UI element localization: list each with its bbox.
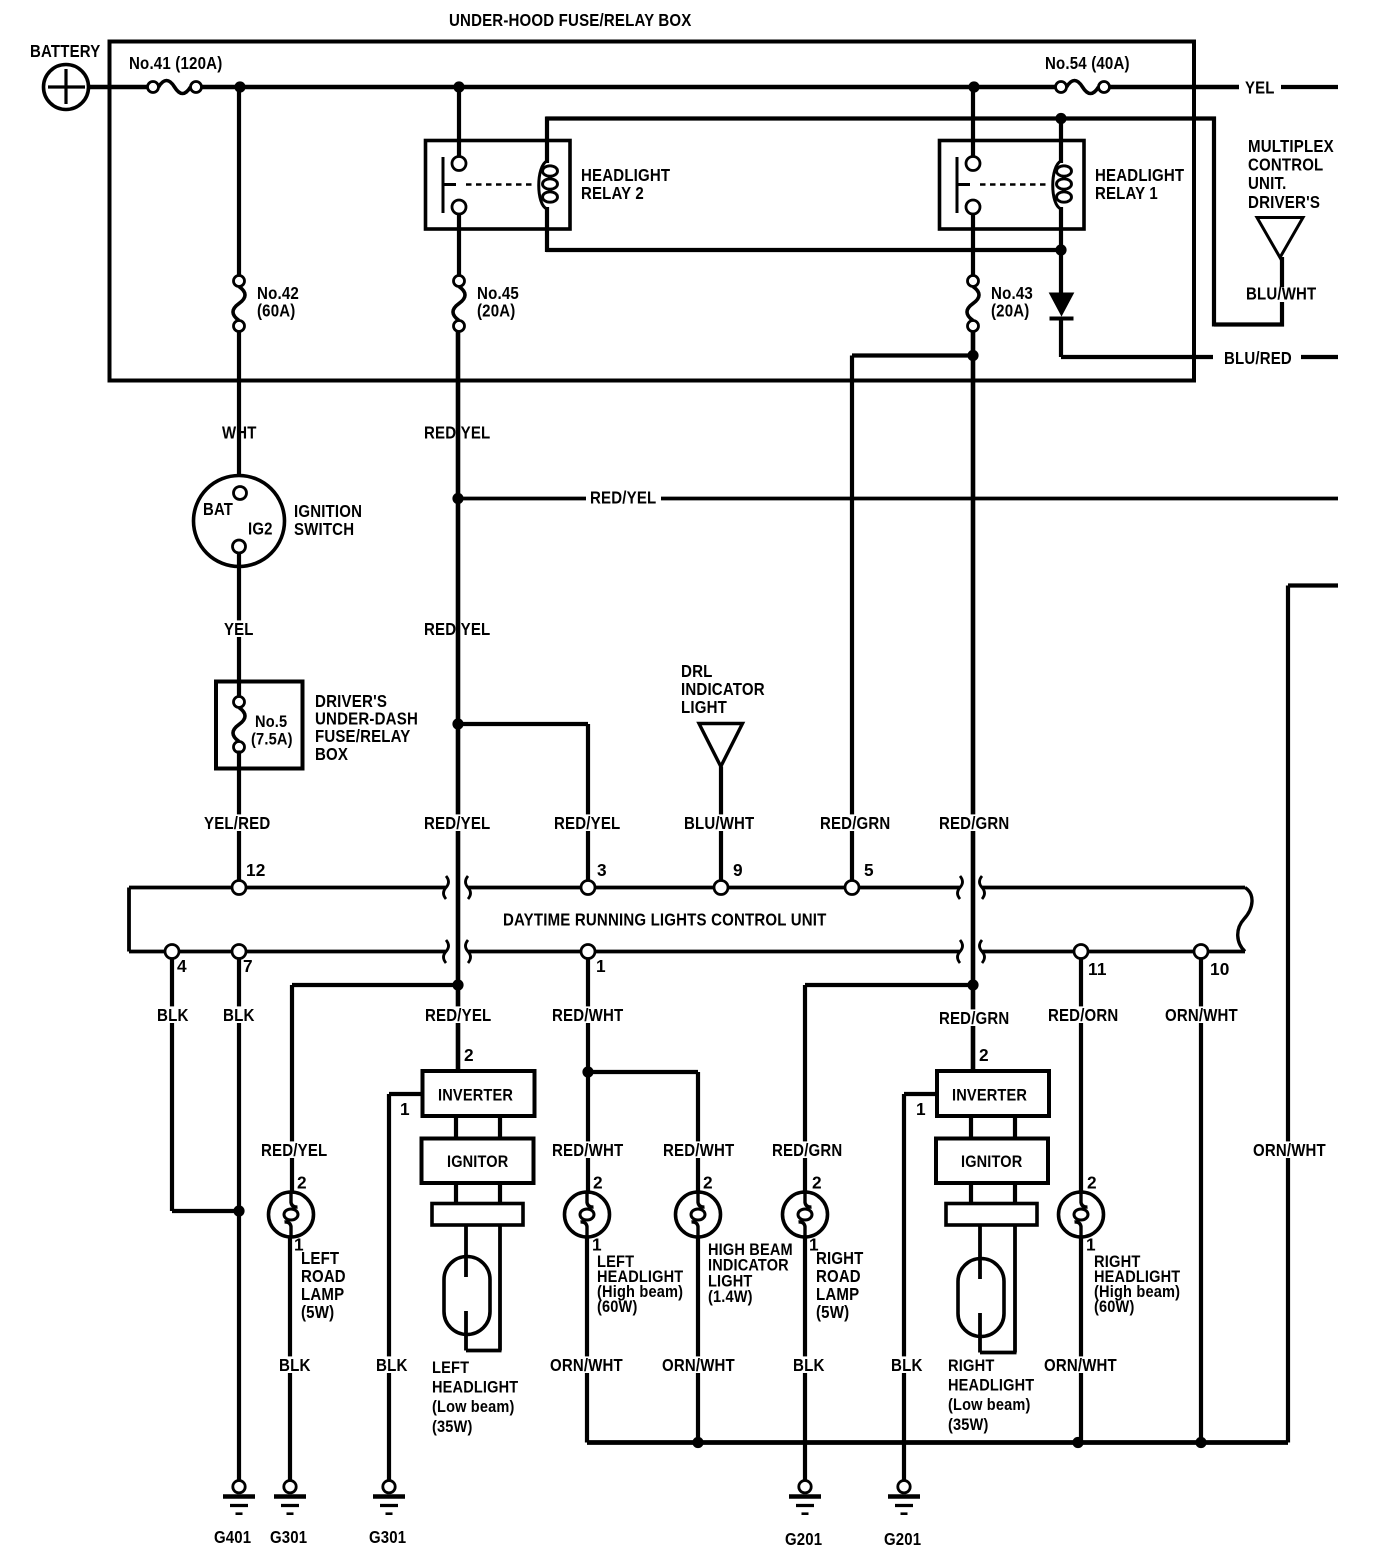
svg-text:(60W): (60W) xyxy=(597,1297,638,1316)
svg-text:DAYTIME RUNNING LIGHTS CONTROL: DAYTIME RUNNING LIGHTS CONTROL UNIT xyxy=(503,910,827,930)
svg-text:(5W): (5W) xyxy=(301,1302,334,1322)
svg-text:YEL/RED: YEL/RED xyxy=(204,813,270,833)
svg-text:ORN/WHT: ORN/WHT xyxy=(1044,1355,1117,1375)
svg-text:BLU/WHT: BLU/WHT xyxy=(1246,284,1317,304)
svg-text:RIGHT: RIGHT xyxy=(948,1356,995,1375)
svg-text:INVERTER: INVERTER xyxy=(438,1086,513,1105)
svg-text:RIGHT: RIGHT xyxy=(816,1248,864,1268)
svg-text:ROAD: ROAD xyxy=(301,1266,346,1286)
svg-text:BLK: BLK xyxy=(157,1005,189,1025)
svg-text:2: 2 xyxy=(979,1045,989,1065)
svg-text:UNDER-HOOD FUSE/RELAY BOX: UNDER-HOOD FUSE/RELAY BOX xyxy=(449,10,692,30)
svg-text:HEADLIGHT: HEADLIGHT xyxy=(432,1378,518,1397)
svg-text:12: 12 xyxy=(246,860,266,880)
svg-text:LAMP: LAMP xyxy=(301,1284,344,1304)
svg-text:1: 1 xyxy=(916,1099,926,1119)
svg-text:UNIT.: UNIT. xyxy=(1248,173,1287,193)
svg-text:5: 5 xyxy=(864,860,874,880)
svg-text:DRIVER'S: DRIVER'S xyxy=(1248,192,1320,212)
svg-text:RED/YEL: RED/YEL xyxy=(590,488,656,508)
svg-text:ORN/WHT: ORN/WHT xyxy=(1165,1005,1238,1025)
svg-text:No.5: No.5 xyxy=(255,712,287,731)
svg-text:7: 7 xyxy=(243,956,253,976)
svg-text:(5W): (5W) xyxy=(816,1302,849,1322)
svg-text:BLU/RED: BLU/RED xyxy=(1224,348,1292,368)
svg-text:RED/GRN: RED/GRN xyxy=(939,1008,1009,1028)
svg-text:1: 1 xyxy=(400,1099,410,1119)
svg-text:IGNITION: IGNITION xyxy=(294,501,362,521)
svg-text:BATTERY: BATTERY xyxy=(30,41,101,61)
svg-text:ORN/WHT: ORN/WHT xyxy=(550,1355,623,1375)
svg-text:LEFT: LEFT xyxy=(301,1248,340,1268)
svg-text:2: 2 xyxy=(1087,1173,1097,1193)
svg-text:BLK: BLK xyxy=(376,1355,408,1375)
svg-text:LIGHT: LIGHT xyxy=(681,697,727,717)
svg-text:HEADLIGHT: HEADLIGHT xyxy=(948,1376,1034,1395)
svg-text:(60A): (60A) xyxy=(257,301,296,321)
svg-text:IGNITOR: IGNITOR xyxy=(447,1152,508,1171)
svg-text:YEL: YEL xyxy=(224,619,254,639)
svg-text:RED/YEL: RED/YEL xyxy=(554,813,620,833)
svg-text:RED/GRN: RED/GRN xyxy=(772,1140,842,1160)
svg-text:BLK: BLK xyxy=(891,1355,923,1375)
svg-text:(20A): (20A) xyxy=(991,301,1030,321)
svg-text:(Low beam): (Low beam) xyxy=(948,1395,1031,1414)
svg-text:SWITCH: SWITCH xyxy=(294,519,354,539)
svg-text:(35W): (35W) xyxy=(948,1415,989,1434)
svg-text:ORN/WHT: ORN/WHT xyxy=(662,1355,735,1375)
svg-text:4: 4 xyxy=(177,956,187,976)
svg-text:G201: G201 xyxy=(884,1529,921,1549)
svg-text:BLK: BLK xyxy=(279,1355,311,1375)
svg-text:IG2: IG2 xyxy=(248,519,273,539)
svg-text:2: 2 xyxy=(297,1173,307,1193)
svg-text:RED/WHT: RED/WHT xyxy=(552,1140,624,1160)
svg-text:BLK: BLK xyxy=(223,1005,255,1025)
svg-text:G301: G301 xyxy=(369,1527,406,1547)
svg-text:INVERTER: INVERTER xyxy=(952,1086,1027,1105)
svg-text:G201: G201 xyxy=(785,1529,822,1549)
svg-text:RED/WHT: RED/WHT xyxy=(552,1005,624,1025)
svg-text:HEADLIGHT: HEADLIGHT xyxy=(1095,165,1185,185)
svg-text:3: 3 xyxy=(597,860,607,880)
svg-text:11: 11 xyxy=(1088,959,1107,979)
svg-text:ORN/WHT: ORN/WHT xyxy=(1253,1140,1326,1160)
svg-text:RED/GRN: RED/GRN xyxy=(939,813,1009,833)
svg-text:IGNITOR: IGNITOR xyxy=(961,1152,1022,1171)
svg-text:LEFT: LEFT xyxy=(432,1358,469,1377)
svg-text:1: 1 xyxy=(596,956,606,976)
svg-text:No.54 (40A): No.54 (40A) xyxy=(1045,53,1130,73)
svg-text:G401: G401 xyxy=(214,1527,251,1547)
svg-text:RED/YEL: RED/YEL xyxy=(425,1005,491,1025)
svg-text:RELAY 1: RELAY 1 xyxy=(1095,183,1158,203)
svg-text:BLU/WHT: BLU/WHT xyxy=(684,813,755,833)
svg-text:RED/GRN: RED/GRN xyxy=(820,813,890,833)
svg-text:9: 9 xyxy=(733,860,743,880)
svg-text:10: 10 xyxy=(1210,959,1230,979)
svg-text:RELAY 2: RELAY 2 xyxy=(581,183,644,203)
svg-text:RED/WHT: RED/WHT xyxy=(663,1140,735,1160)
svg-text:2: 2 xyxy=(464,1045,474,1065)
svg-text:No.41 (120A): No.41 (120A) xyxy=(129,53,222,73)
svg-text:2: 2 xyxy=(593,1173,603,1193)
svg-text:INDICATOR: INDICATOR xyxy=(681,679,765,699)
svg-text:(1.4W): (1.4W) xyxy=(708,1287,753,1306)
svg-text:RED/ORN: RED/ORN xyxy=(1048,1005,1118,1025)
svg-text:(35W): (35W) xyxy=(432,1417,473,1436)
svg-text:DRL: DRL xyxy=(681,661,713,681)
svg-text:(20A): (20A) xyxy=(477,301,516,321)
svg-text:G301: G301 xyxy=(270,1527,307,1547)
svg-text:BAT: BAT xyxy=(203,499,233,519)
svg-text:(Low beam): (Low beam) xyxy=(432,1397,515,1416)
svg-text:(7.5A): (7.5A) xyxy=(251,730,293,749)
svg-text:2: 2 xyxy=(812,1173,822,1193)
svg-text:RED/YEL: RED/YEL xyxy=(261,1140,327,1160)
svg-text:BOX: BOX xyxy=(315,744,348,764)
svg-text:BLK: BLK xyxy=(793,1355,825,1375)
svg-text:HEADLIGHT: HEADLIGHT xyxy=(581,165,671,185)
svg-text:ROAD: ROAD xyxy=(816,1266,861,1286)
svg-text:2: 2 xyxy=(703,1173,713,1193)
svg-text:(60W): (60W) xyxy=(1094,1297,1135,1316)
svg-text:CONTROL: CONTROL xyxy=(1248,155,1323,175)
svg-text:YEL: YEL xyxy=(1245,78,1275,98)
svg-text:RED/YEL: RED/YEL xyxy=(424,813,490,833)
svg-text:LAMP: LAMP xyxy=(816,1284,859,1304)
svg-text:MULTIPLEX: MULTIPLEX xyxy=(1248,136,1334,156)
